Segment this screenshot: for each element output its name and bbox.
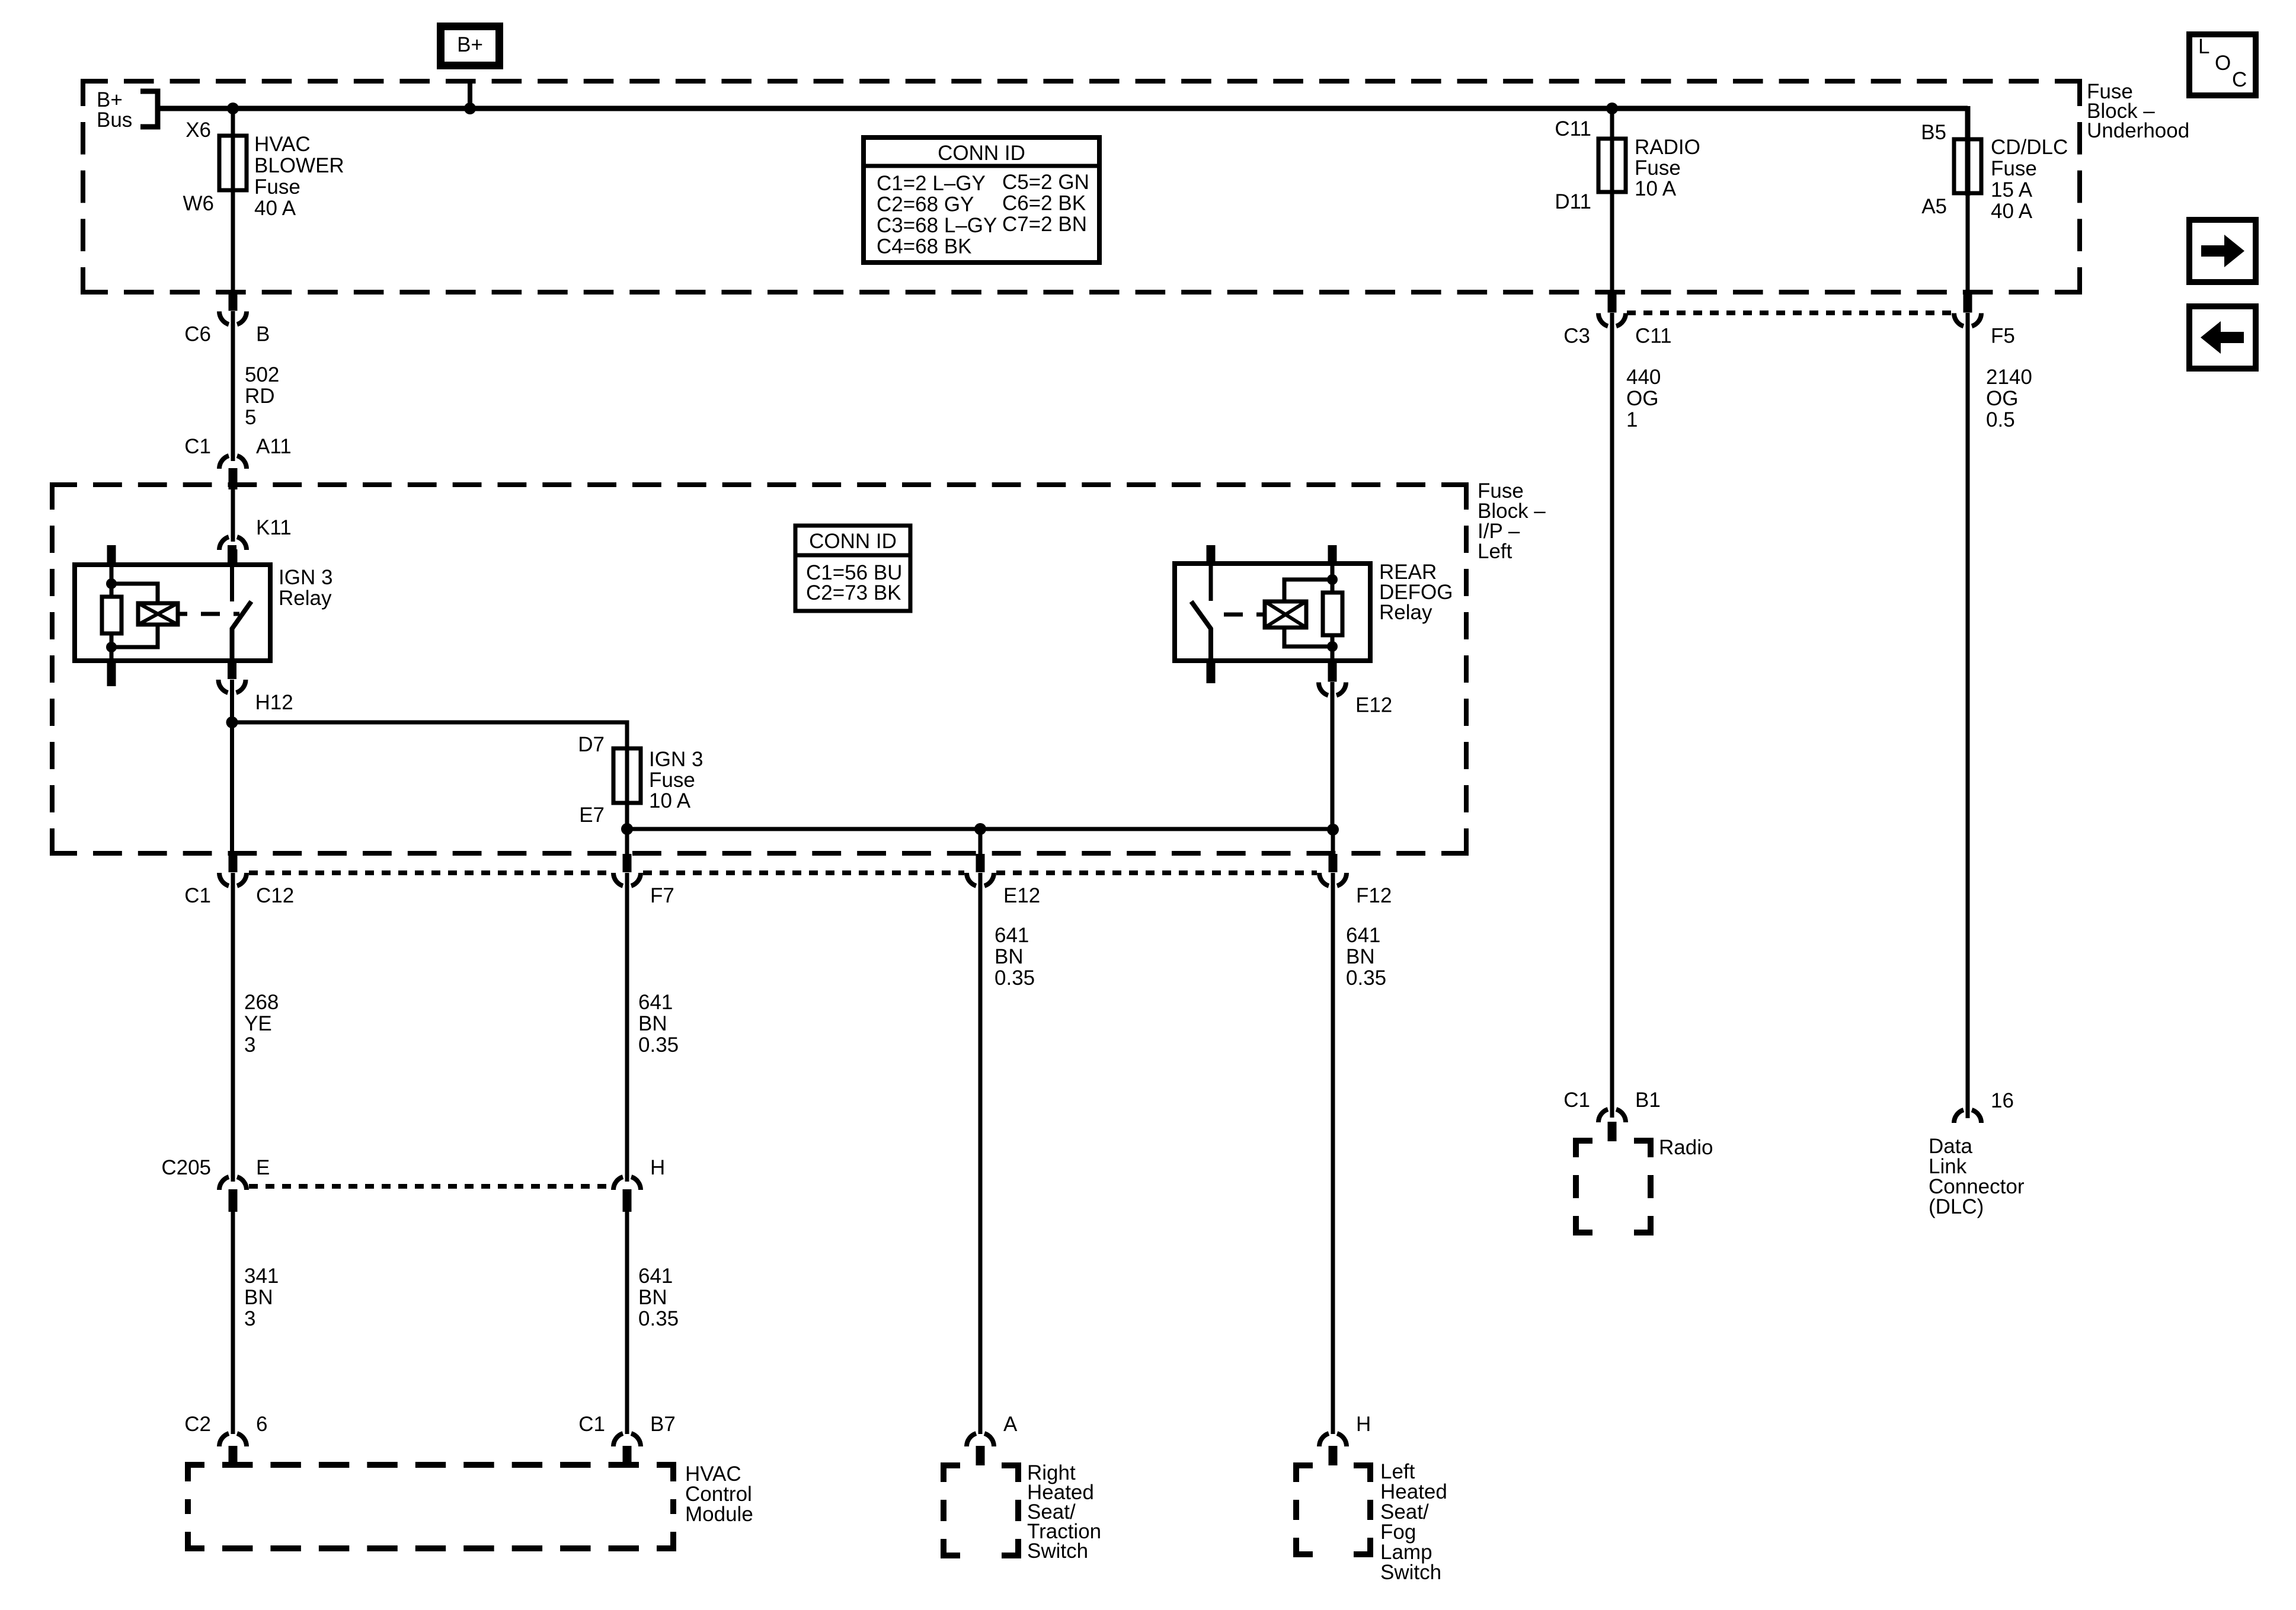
- fuse RADIO 10A: [1598, 139, 1626, 192]
- connector row dotted line C3-F5: [1627, 311, 1953, 315]
- svg-text:641: 641: [638, 1265, 673, 1288]
- svg-text:E12: E12: [1355, 694, 1392, 717]
- svg-text:BN: BN: [994, 945, 1024, 968]
- pin label A5: [1921, 195, 1947, 218]
- svg-text:L: L: [2198, 35, 2209, 58]
- relay IGN3 coil: [102, 597, 121, 633]
- wire C11 down to radio C1: [1610, 313, 1614, 1118]
- relay IGN3 coil pin stub bottom: [107, 661, 116, 686]
- svg-text:B5: B5: [1921, 121, 1946, 144]
- fuse IGN 3 10A: [613, 748, 641, 803]
- relay DEFOG coil wire bottom: [1331, 635, 1335, 661]
- relay DEFOG coil wire top: [1331, 564, 1335, 593]
- svg-text:H: H: [1356, 1413, 1371, 1436]
- svg-text:Module: Module: [685, 1503, 753, 1526]
- svg-text:3: 3: [244, 1033, 255, 1057]
- svg-text:Switch: Switch: [1027, 1539, 1088, 1563]
- svg-text:C2=73 BK: C2=73 BK: [806, 581, 901, 604]
- label Data Link Connector DLC: [1929, 1135, 2025, 1218]
- relay IGN3 actuator dash: [201, 612, 239, 616]
- svg-text:40 A: 40 A: [254, 197, 296, 220]
- label HVAC BLOWER Fuse 40A: [254, 133, 344, 220]
- svg-text:X6: X6: [186, 119, 211, 142]
- svg-text:10 A: 10 A: [649, 789, 691, 812]
- relay IGN3 switch pin stub top: [228, 545, 236, 565]
- svg-text:Relay: Relay: [1379, 601, 1432, 624]
- svg-text:641: 641: [1346, 924, 1380, 947]
- wire label 641 BN 0.35 F7: [638, 991, 679, 1057]
- svg-text:C2: C2: [184, 1413, 211, 1436]
- svg-text:E12: E12: [1003, 884, 1040, 907]
- relay DEFOG actuator dash: [1224, 613, 1243, 617]
- legend LOC box: [2189, 34, 2256, 95]
- pin label D7: [578, 733, 605, 756]
- svg-text:641: 641: [994, 924, 1029, 947]
- svg-text:10 A: 10 A: [1635, 177, 1677, 200]
- wire A11 to K11: [231, 489, 235, 542]
- svg-text:A11: A11: [256, 435, 292, 458]
- device Radio box: [1576, 1136, 1713, 1233]
- label Fuse Block - I/P - Left: [1478, 479, 1546, 563]
- relay IGN3 coil wire bottom: [110, 633, 114, 661]
- relay IGN3 coil pin stub top: [107, 545, 116, 565]
- svg-text:Fuse: Fuse: [649, 769, 695, 792]
- wire C12 down to C205: [231, 873, 235, 1182]
- node B+ bus tap: [464, 103, 476, 114]
- relay IGN3 coil wire top: [110, 565, 114, 597]
- connector C205 E: [161, 1156, 270, 1212]
- svg-text:C1: C1: [184, 435, 211, 458]
- label IGN 3 Fuse 10A: [649, 748, 703, 812]
- svg-text:C7=2 BN: C7=2 BN: [1002, 213, 1087, 236]
- wire label 440 OG 1: [1626, 366, 1661, 431]
- svg-text:IGN 3: IGN 3: [649, 748, 703, 771]
- svg-text:A5: A5: [1921, 195, 1947, 218]
- wire F7 down to H: [625, 873, 629, 1182]
- svg-text:C1: C1: [1563, 1089, 1590, 1112]
- node H12 junction: [226, 716, 238, 728]
- connector E12 relay: [1319, 661, 1392, 717]
- relay DEFOG switch pin stub bottom: [1207, 661, 1216, 683]
- inline connector dotted line C205: [249, 1184, 612, 1189]
- pin label X6: [186, 119, 211, 142]
- relay DEFOG suppressor branch bottom: [1284, 628, 1332, 646]
- legend arrow left box: [2189, 306, 2256, 369]
- relay DEFOG switch blade: [1191, 601, 1211, 661]
- svg-text:641: 641: [638, 991, 673, 1014]
- svg-text:Underhood: Underhood: [2087, 119, 2189, 142]
- svg-text:HVAC: HVAC: [254, 133, 311, 156]
- svg-text:Switch: Switch: [1380, 1561, 1441, 1584]
- wire label 641 BN 0.35 F12: [1346, 924, 1386, 990]
- svg-text:15 A: 15 A: [1991, 178, 2033, 201]
- connector H12: [219, 661, 293, 714]
- relay DEFOG coil node top: [1327, 574, 1338, 585]
- B+ Bus bracket label: [97, 88, 158, 132]
- wire H12 to D7: [232, 722, 628, 805]
- svg-text:BN: BN: [244, 1286, 273, 1309]
- relay DEFOG coil: [1323, 593, 1342, 635]
- wire bus to RADIO fuse through fuse: [1610, 108, 1614, 194]
- svg-text:3: 3: [244, 1307, 255, 1330]
- wire F5 down to DLC: [1966, 313, 1970, 1118]
- wire E12 relay down: [1331, 682, 1335, 830]
- connector DLC 16: [1954, 1089, 2014, 1123]
- wire bus corner down through CD/DLC fuse: [1965, 106, 1971, 196]
- wire label 341 BN 3: [244, 1265, 279, 1330]
- svg-text:5: 5: [245, 406, 256, 429]
- svg-text:K11: K11: [256, 516, 292, 539]
- svg-text:B7: B7: [650, 1413, 676, 1436]
- svg-text:Bus: Bus: [97, 108, 132, 132]
- svg-text:YE: YE: [244, 1012, 272, 1035]
- connector C2/6: [184, 1413, 267, 1465]
- node E12 tap: [974, 823, 986, 835]
- svg-text:B: B: [256, 323, 270, 346]
- wire H down to B7: [625, 1212, 629, 1434]
- label CD/DLC Fuse 15A 40A: [1991, 136, 2068, 223]
- svg-text:C11: C11: [1555, 117, 1591, 140]
- relay DEFOG suppressor diode box: [1265, 601, 1306, 628]
- svg-text:OG: OG: [1626, 387, 1658, 410]
- connector F12: [1319, 854, 1392, 907]
- connector A: [967, 1413, 1018, 1465]
- relay IGN3 coil node top: [106, 578, 117, 589]
- svg-text:C6: C6: [184, 323, 211, 346]
- svg-text:W6: W6: [183, 192, 215, 215]
- svg-text:D11: D11: [1555, 190, 1591, 213]
- svg-text:H12: H12: [255, 691, 293, 714]
- svg-text:OG: OG: [1986, 387, 2018, 410]
- pin label E7: [579, 804, 605, 827]
- relay DEFOG coil pin stub top: [1328, 545, 1337, 564]
- connector C205 H: [613, 1156, 665, 1212]
- svg-text:C1: C1: [578, 1413, 605, 1436]
- svg-text:C1: C1: [184, 884, 211, 907]
- svg-text:BN: BN: [638, 1286, 667, 1309]
- wire C6 to C1: [231, 311, 235, 461]
- svg-text:40 A: 40 A: [1991, 200, 2033, 223]
- connector C1/B1: [1563, 1089, 1661, 1141]
- fuse block I/P dashed box: [52, 485, 1466, 853]
- wire H12 down: [230, 680, 234, 725]
- svg-text:E7: E7: [579, 804, 605, 827]
- relay IGN3 coil node bottom: [106, 642, 117, 652]
- device Left Heated Seat Fog Lamp Switch box: [1296, 1460, 1447, 1584]
- node E7 junction: [621, 823, 633, 835]
- fuse CD/DLC 15A 40A: [1954, 139, 1981, 193]
- svg-text:0.5: 0.5: [1986, 408, 2015, 431]
- fuse block underhood dashed box: [83, 81, 2080, 292]
- relay DEFOG switch pin stub top: [1207, 545, 1216, 564]
- relay DEFOG switch contact: [1209, 564, 1213, 601]
- relay IGN3 suppressor branch bottom: [111, 625, 158, 647]
- svg-text:Fuse: Fuse: [254, 175, 300, 199]
- svg-text:H: H: [650, 1156, 665, 1179]
- legend arrow right box: [2189, 220, 2256, 282]
- svg-text:Left: Left: [1478, 540, 1512, 563]
- svg-text:268: 268: [244, 991, 279, 1014]
- svg-text:C2=68 GY: C2=68 GY: [877, 193, 974, 216]
- svg-text:C4=68 BK: C4=68 BK: [877, 235, 972, 258]
- svg-text:1: 1: [1626, 408, 1638, 431]
- relay REAR DEFOG box: [1175, 561, 1453, 661]
- svg-text:BN: BN: [1346, 945, 1375, 968]
- relay DEFOG actuator stub: [1256, 613, 1265, 617]
- relay IGN3 suppressor diode box: [138, 603, 178, 625]
- svg-text:F7: F7: [650, 884, 674, 907]
- svg-text:0.35: 0.35: [638, 1033, 679, 1057]
- svg-text:(DLC): (DLC): [1929, 1195, 1984, 1218]
- relay IGN3 suppressor branch top: [111, 584, 158, 603]
- svg-text:C3: C3: [1563, 325, 1590, 348]
- svg-text:Fuse: Fuse: [1635, 156, 1681, 180]
- svg-text:B1: B1: [1635, 1089, 1661, 1112]
- relay IGN 3 box: [75, 565, 332, 661]
- wire label 641 BN 0.35 B7: [638, 1265, 679, 1330]
- svg-text:IGN 3: IGN 3: [279, 566, 332, 589]
- connector C1/C12: [184, 854, 294, 907]
- wire label 268 YE 3: [244, 991, 279, 1057]
- relay DEFOG suppressor branch top: [1284, 580, 1332, 601]
- pin label D11: [1555, 190, 1591, 213]
- relay IGN3 switch contact: [230, 565, 234, 601]
- label RADIO Fuse 10A: [1635, 136, 1700, 200]
- device Right Heated Seat Traction Switch box: [944, 1461, 1101, 1563]
- svg-text:C1=2 L–GY: C1=2 L–GY: [877, 172, 986, 195]
- svg-text:RADIO: RADIO: [1635, 136, 1700, 159]
- connector C1/A11: [184, 435, 291, 489]
- device HVAC Control Module box: [188, 1462, 753, 1548]
- wire H12 junction down to C12: [230, 722, 234, 854]
- svg-text:C: C: [2232, 68, 2247, 91]
- wire B+ box to bus: [468, 79, 472, 111]
- svg-text:C205: C205: [161, 1156, 211, 1179]
- wire B+ bus: [158, 106, 1968, 111]
- connector F5: [1954, 292, 2015, 348]
- label Fuse Block - Underhood: [2087, 80, 2189, 142]
- relay DEFOG coil node bottom: [1327, 641, 1338, 652]
- node bus tap X6: [227, 103, 239, 114]
- relay DEFOG pin stub E12: [1328, 661, 1337, 681]
- pin label W6: [183, 192, 215, 215]
- wire bus to HVAC fuse through fuse: [231, 108, 235, 193]
- connector H switch: [1319, 1413, 1371, 1465]
- wire E7 down: [625, 803, 629, 854]
- svg-text:BLOWER: BLOWER: [254, 154, 344, 177]
- table CONN ID I/P: [795, 526, 910, 611]
- wire F12 down to H switch: [1331, 830, 1335, 1434]
- svg-text:C3=68 L–GY: C3=68 L–GY: [877, 214, 997, 237]
- connector F7: [613, 854, 674, 907]
- wire RADIO fuse to C3: [1610, 192, 1614, 293]
- relay IGN3 actuator stub: [178, 612, 187, 616]
- svg-text:0.35: 0.35: [1346, 966, 1386, 990]
- wire E7 horizontal: [627, 827, 1333, 831]
- connector K11: [219, 516, 292, 565]
- wire HVAC fuse to C6: [231, 190, 235, 293]
- connector E12 row: [967, 854, 1040, 907]
- svg-text:RD: RD: [245, 385, 275, 408]
- connector C3/C11: [1563, 292, 1671, 348]
- connector C1/B7: [578, 1413, 676, 1465]
- svg-text:440: 440: [1626, 366, 1661, 389]
- svg-text:0.35: 0.35: [638, 1307, 679, 1330]
- svg-text:D7: D7: [578, 733, 605, 756]
- node F12 tap: [1327, 824, 1339, 836]
- connector row dotted line C12-F12: [249, 870, 1317, 875]
- pin label B5: [1921, 121, 1946, 144]
- relay IGN3 switch blade: [232, 601, 252, 661]
- fuse HVAC BLOWER 40A: [219, 136, 247, 190]
- wire label 502 RD 5: [245, 363, 279, 429]
- pin label C11: [1555, 117, 1591, 140]
- svg-text:2140: 2140: [1986, 366, 2032, 389]
- wire E12 down to A: [978, 829, 983, 1434]
- wire CD/DLC fuse to F5: [1966, 193, 1970, 293]
- svg-text:C11: C11: [1635, 325, 1672, 348]
- svg-text:CONN ID: CONN ID: [809, 530, 897, 553]
- svg-text:Radio: Radio: [1659, 1136, 1713, 1159]
- svg-text:C12: C12: [256, 884, 294, 907]
- svg-text:C5=2 GN: C5=2 GN: [1002, 171, 1089, 194]
- svg-text:Fuse: Fuse: [1991, 157, 2037, 180]
- svg-text:F12: F12: [1356, 884, 1392, 907]
- svg-text:C6=2 BK: C6=2 BK: [1002, 192, 1086, 215]
- wire label 641 BN 0.35 E12: [994, 924, 1035, 990]
- wire label 2140 OG 0.5: [1986, 366, 2032, 431]
- power symbol B+ box: [441, 27, 500, 66]
- svg-text:0.35: 0.35: [994, 966, 1035, 990]
- svg-text:A: A: [1003, 1413, 1018, 1436]
- svg-text:CONN ID: CONN ID: [938, 142, 1025, 165]
- svg-text:E: E: [256, 1156, 270, 1179]
- connector C6/B: [184, 292, 270, 346]
- svg-text:6: 6: [256, 1413, 267, 1436]
- svg-text:F5: F5: [1991, 325, 2015, 348]
- svg-text:341: 341: [244, 1265, 279, 1288]
- svg-text:O: O: [2215, 52, 2231, 75]
- node bus tap C11: [1606, 103, 1618, 114]
- svg-text:16: 16: [1991, 1089, 2014, 1112]
- svg-text:CD/DLC: CD/DLC: [1991, 136, 2068, 159]
- svg-text:Relay: Relay: [279, 587, 332, 610]
- wire E down to C2: [231, 1212, 235, 1434]
- table CONN ID underhood: [864, 137, 1099, 263]
- svg-text:B+: B+: [457, 33, 483, 56]
- svg-text:BN: BN: [638, 1012, 667, 1035]
- svg-text:502: 502: [245, 363, 279, 386]
